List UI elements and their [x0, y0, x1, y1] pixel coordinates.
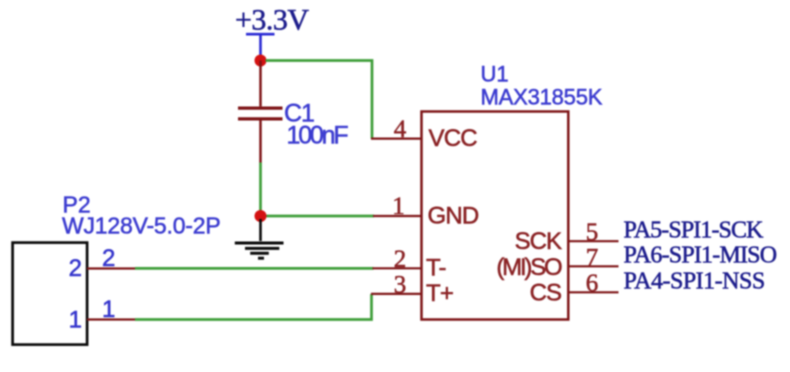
svg-text:U1: U1: [481, 62, 509, 87]
connector P2 body: [13, 243, 88, 345]
wire green: gnd junction to pin 1: [266, 215, 375, 218]
ground symbol: [235, 219, 284, 258]
svg-text:(MI)SO: (MI)SO: [496, 254, 562, 281]
capacitor C1 top pin: [259, 61, 262, 107]
junction top: [255, 55, 267, 67]
svg-text:2: 2: [102, 245, 115, 272]
svg-text:6: 6: [586, 270, 599, 297]
svg-text:5: 5: [586, 219, 599, 246]
wire green T-: [135, 267, 374, 270]
svg-text:100nF: 100nF: [287, 122, 349, 150]
svg-text:VCC: VCC: [429, 125, 478, 152]
svg-text:PA5-SPI1-SCK: PA5-SPI1-SCK: [624, 217, 765, 243]
svg-text:2: 2: [69, 255, 82, 282]
svg-text:1: 1: [392, 193, 405, 220]
svg-text:WJ128V-5.0-2P: WJ128V-5.0-2P: [62, 213, 220, 239]
svg-text:CS: CS: [530, 279, 561, 306]
wire green: top junction to pin 4: [266, 61, 373, 139]
pin 3 stub (T+): [371, 293, 422, 295]
capacitor C1 bottom pin: [259, 121, 262, 163]
svg-text:PA6-SPI1-MISO: PA6-SPI1-MISO: [624, 243, 777, 269]
wire green T+: [135, 294, 372, 320]
svg-text:T-: T-: [426, 254, 446, 281]
svg-text:7: 7: [586, 244, 599, 271]
P2 pin 2 stub: [87, 267, 135, 269]
svg-text:1: 1: [102, 296, 115, 323]
power symbol +3.3V bar: [246, 33, 275, 36]
pin 5 stub: [569, 240, 619, 242]
svg-text:1: 1: [69, 306, 82, 333]
svg-text:+3.3V: +3.3V: [235, 4, 309, 37]
pin 1 stub: [373, 215, 422, 217]
svg-text:2: 2: [394, 246, 407, 273]
svg-text:SCK: SCK: [515, 228, 562, 255]
P2 pin 1 stub: [87, 318, 135, 320]
junction gnd: [255, 210, 267, 222]
power symbol pin (blue vertical): [259, 34, 262, 57]
svg-text:PA4-SPI1-NSS: PA4-SPI1-NSS: [624, 269, 765, 295]
svg-text:4: 4: [394, 116, 407, 143]
svg-text:T+: T+: [426, 280, 453, 307]
wire green: cap to gnd junction: [259, 163, 262, 217]
svg-text:MAX31855K: MAX31855K: [481, 85, 603, 110]
capacitor C1 plates: [238, 108, 283, 119]
pin 2 stub (T-): [373, 267, 422, 269]
pin 6 stub: [569, 291, 619, 293]
svg-text:3: 3: [394, 271, 407, 298]
pin 7 stub: [569, 265, 619, 267]
svg-text:GND: GND: [428, 203, 479, 230]
pin 4 stub: [371, 138, 422, 140]
IC U1 body: [422, 112, 569, 320]
